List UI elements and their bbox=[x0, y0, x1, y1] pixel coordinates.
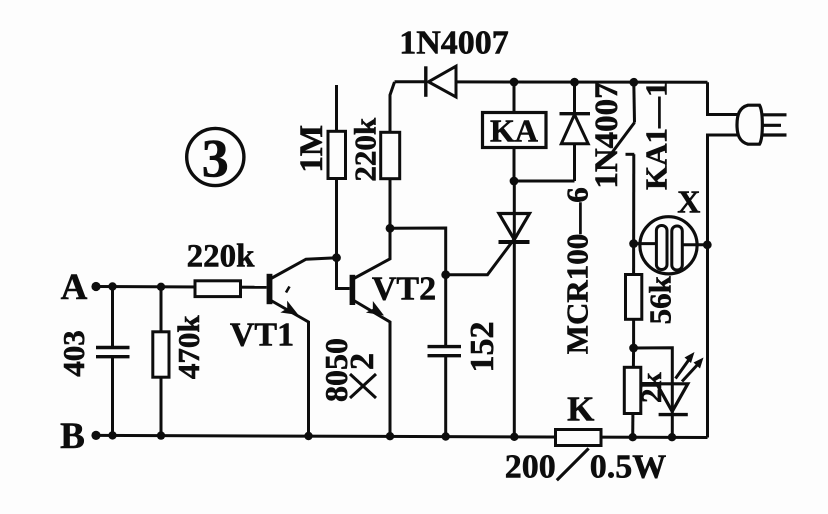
wire switch to tube/56k bbox=[632, 154, 635, 275]
svg-text:KA: KA bbox=[490, 113, 538, 149]
junction dot VT1 collector / 1M / VT2 base bbox=[332, 253, 341, 262]
wire resistor 470k branch bottom bbox=[160, 377, 163, 435]
wire 1M top lead bbox=[335, 85, 338, 132]
transistor VT2 base bar bbox=[350, 275, 356, 305]
junction dot LED at B bbox=[668, 433, 676, 441]
svg-text:VT1: VT1 bbox=[230, 317, 294, 354]
relay coil KA box bbox=[483, 113, 547, 148]
junction dot cap at B bbox=[442, 432, 450, 440]
LED VD triangle bbox=[657, 384, 688, 412]
svg-text:470k: 470k bbox=[171, 315, 206, 380]
svg-text:220k: 220k bbox=[347, 117, 382, 182]
transistor VT2 collector bbox=[354, 228, 390, 278]
junction dot A-403 bbox=[108, 282, 116, 290]
label x2 bbox=[344, 353, 381, 398]
wire capacitor 403 branch bottom bbox=[111, 357, 114, 435]
wire 1M bottom lead to VT1 collector node bbox=[335, 179, 338, 258]
wire top rail right segment bbox=[456, 80, 708, 83]
wire KA bottom lead bbox=[513, 148, 516, 182]
capacitor C 152 bbox=[428, 347, 462, 356]
svg-text:K: K bbox=[567, 390, 594, 429]
svg-text:1N4007: 1N4007 bbox=[399, 25, 509, 62]
stray mark near VT1 bbox=[286, 287, 290, 293]
resistor R K (200/0.5W) bbox=[556, 430, 602, 446]
switch KA1-1 (open) bbox=[611, 82, 635, 154]
resistor R 470k bbox=[153, 332, 169, 377]
svg-text:KA1—1: KA1—1 bbox=[638, 81, 673, 190]
wire node to diode bottom bbox=[514, 180, 575, 183]
wire KA branch from rail bbox=[513, 82, 516, 113]
wire right rail top bbox=[708, 82, 740, 114]
wire diode 1N4007 vertical top lead bbox=[573, 82, 576, 114]
wire capacitor 403 branch top bbox=[111, 287, 114, 348]
svg-text:B: B bbox=[60, 416, 85, 457]
wire VT2 collector node to cap 152 bbox=[390, 228, 446, 347]
tube right electrode bbox=[672, 226, 708, 270]
neon tube X envelope bbox=[640, 217, 697, 274]
svg-text:2k: 2k bbox=[636, 372, 668, 404]
junction dot rail-switch bbox=[629, 78, 638, 87]
LED cathode bar bbox=[659, 413, 688, 416]
diode D 1N4007 (vertical, across relay) bbox=[560, 114, 591, 144]
junction dot VT2 emitter at B bbox=[386, 432, 394, 440]
wire diode bottom lead bbox=[573, 144, 576, 181]
wire node to VT2 base bbox=[337, 258, 350, 289]
thyristor cathode bar bbox=[499, 240, 530, 244]
junction dot gate takeoff bbox=[441, 270, 450, 279]
junction dot B-403 bbox=[108, 431, 116, 439]
transistor VT2 emitter with arrow bbox=[354, 301, 390, 437]
resistor R 2k bbox=[624, 367, 641, 413]
svg-text:2: 2 bbox=[344, 353, 381, 370]
junction dot rail-KA bbox=[510, 78, 519, 87]
junction dot tube right bbox=[703, 240, 712, 249]
svg-text:56k: 56k bbox=[642, 275, 677, 324]
wire resistor 470k branch top bbox=[160, 287, 163, 332]
tube left electrode bbox=[634, 226, 667, 270]
transistor VT1 emitter with arrow bbox=[271, 301, 309, 437]
circled figure number 3 bbox=[187, 128, 244, 188]
node B terminal dot bbox=[91, 431, 100, 440]
junction dot SCR cathode at B bbox=[510, 433, 518, 441]
transistor VT1 base bar bbox=[267, 274, 273, 304]
svg-text:VT2: VT2 bbox=[372, 271, 436, 308]
thyristor gate wire bbox=[446, 236, 517, 275]
svg-text:152: 152 bbox=[464, 322, 501, 373]
mains plug bbox=[737, 105, 787, 144]
wire right rail plug bottom lead bbox=[708, 135, 740, 438]
svg-text:1N4007: 1N4007 bbox=[589, 82, 625, 188]
wire LED branch bbox=[634, 348, 673, 437]
resistor R 1M bbox=[328, 131, 346, 178]
thyristor triangle bbox=[499, 214, 530, 240]
transistor VT1 collector bbox=[271, 258, 337, 279]
svg-text:X: X bbox=[677, 184, 700, 220]
wire A line bbox=[96, 285, 267, 289]
wire 220k vertical top lead bbox=[390, 82, 395, 132]
junction dot B-470k bbox=[157, 431, 165, 439]
wire 2k top lead bbox=[632, 348, 635, 367]
wire 220k vertical bottom lead bbox=[389, 179, 392, 229]
svg-text:403: 403 bbox=[56, 330, 91, 377]
junction dot A-470k bbox=[157, 283, 165, 291]
thyristor U MCR100-6 anode wire bbox=[513, 181, 516, 437]
wire 2k bottom lead bbox=[631, 414, 634, 438]
resistor R 220k vertical bbox=[381, 132, 400, 178]
resistor R 220k (horizontal, base of VT1) bbox=[195, 281, 241, 297]
svg-text:200／0.5W: 200／0.5W bbox=[505, 448, 667, 486]
junction dot VT1 emitter at B bbox=[304, 432, 312, 440]
node A terminal dot bbox=[91, 282, 100, 291]
svg-text:MCR100—6: MCR100—6 bbox=[560, 187, 595, 354]
wire B bottom rail bbox=[96, 435, 708, 437]
junction dot 2k at B bbox=[629, 433, 637, 441]
svg-text:1M: 1M bbox=[294, 125, 330, 173]
svg-text:220k: 220k bbox=[187, 239, 256, 275]
junction dot tube left bbox=[629, 239, 638, 248]
svg-text:3: 3 bbox=[202, 129, 229, 189]
resistor R 56k bbox=[626, 275, 642, 320]
svg-text:A: A bbox=[61, 267, 88, 308]
wire cap 152 bottom lead bbox=[444, 356, 447, 437]
wire top rail left segment bbox=[395, 80, 426, 83]
diode D 1N4007 (top, horizontal) bbox=[426, 66, 456, 97]
capacitor C 403 bbox=[96, 348, 130, 357]
junction dot 56k-2k-LED bbox=[629, 344, 638, 353]
junction dot rail-diode bbox=[570, 78, 579, 87]
junction dot KA-diode-SCR node bbox=[510, 177, 519, 186]
wire 56k bottom lead bbox=[632, 319, 635, 348]
LED emission arrow 2 bbox=[682, 358, 704, 382]
LED emission arrow 1 bbox=[676, 352, 695, 379]
junction dot VT2 collector node bbox=[386, 224, 395, 233]
